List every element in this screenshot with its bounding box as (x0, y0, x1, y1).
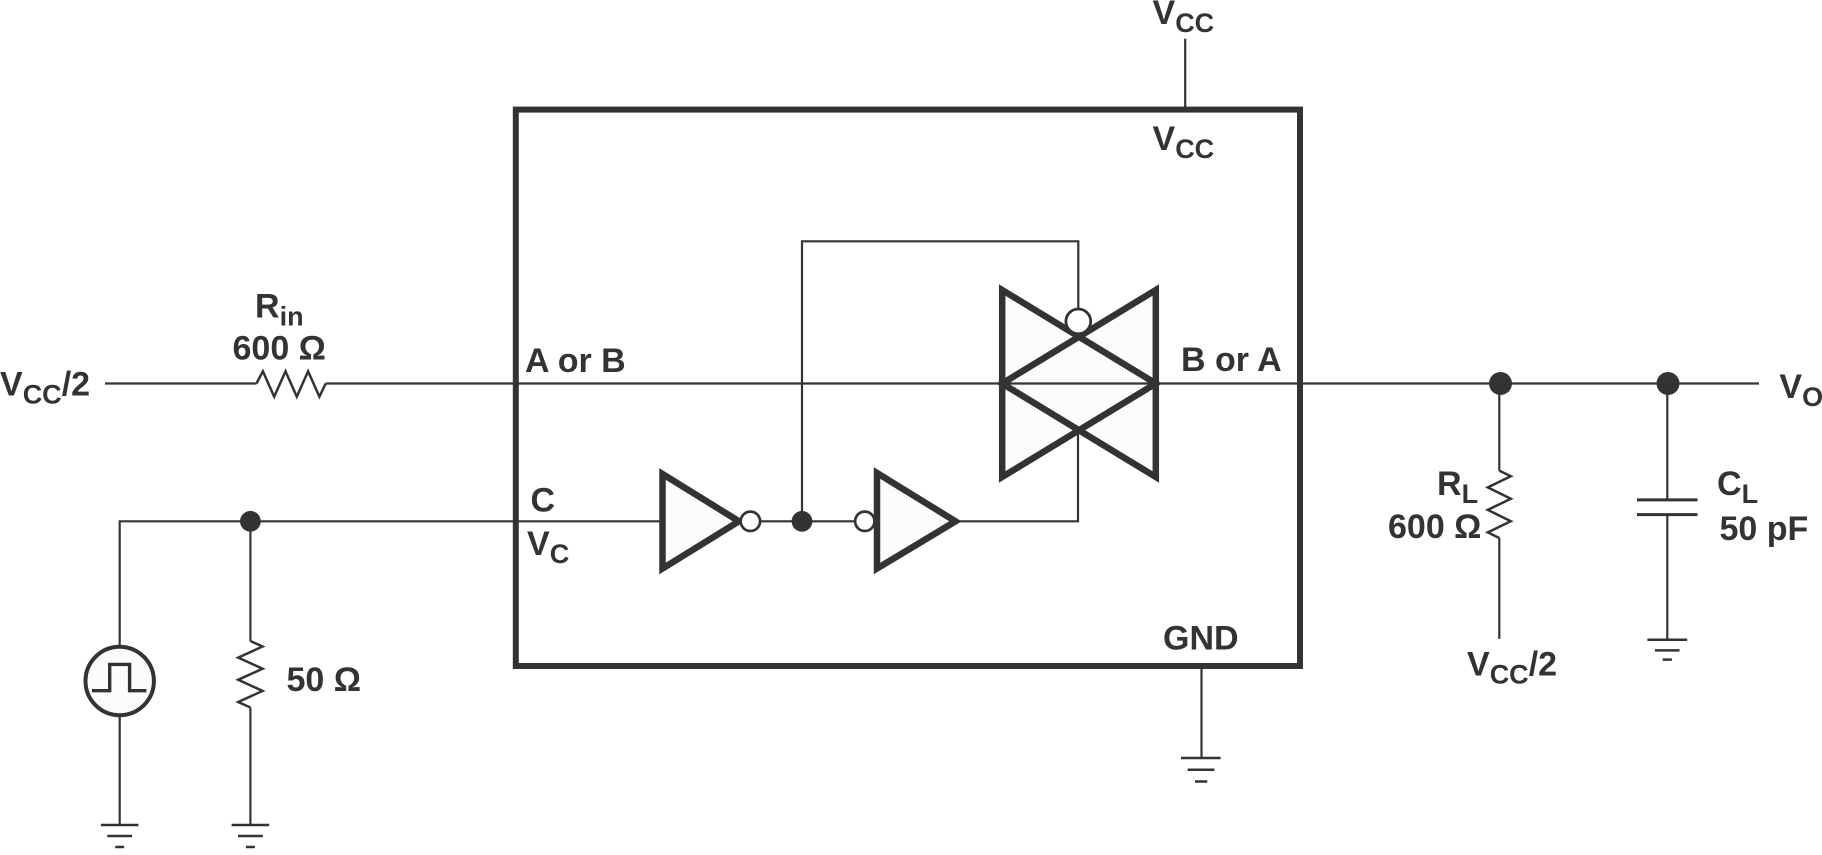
ground (pulse source) (101, 825, 139, 847)
svg-text:GND: GND (1163, 620, 1239, 658)
ground (CL) (1647, 640, 1687, 660)
junction: inverted control node (792, 511, 813, 532)
svg-text:RL: RL (1437, 465, 1478, 509)
svg-text:CL: CL (1717, 465, 1758, 509)
svg-text:A or B: A or B (525, 342, 626, 380)
wire: feedback loop up, across top, down to gate bubble (802, 241, 1078, 521)
resistor 50 ohm (238, 641, 262, 708)
bubble (inverter output) (741, 512, 760, 531)
svg-text:600 Ω: 600 Ω (1388, 508, 1481, 546)
svg-text:VC: VC (527, 525, 569, 569)
svg-text:VCC: VCC (1153, 120, 1215, 164)
wire: buffer output to gate bottom (954, 429, 1078, 522)
ground (IC) (1181, 758, 1221, 782)
bubble (gate control) (1066, 309, 1091, 334)
svg-text:Rin: Rin (255, 288, 304, 332)
svg-text:50 Ω: 50 Ω (287, 661, 362, 699)
wire: node to CL (1666, 384, 1668, 500)
IC box outline (516, 110, 1300, 666)
svg-text:VCC: VCC (1153, 0, 1215, 38)
wire: junction to 50 ohm resistor (249, 521, 251, 641)
svg-text:C: C (531, 482, 556, 520)
wire: inverter to buffer (761, 520, 855, 522)
wire: control C into inverter, down to pulse source (120, 521, 663, 646)
bubble (buffer input) (855, 512, 874, 531)
junction: control node (240, 511, 261, 532)
svg-text:VCC/2: VCC/2 (0, 366, 90, 410)
buffer U3 (877, 473, 956, 569)
transmission-gate U1 outline (1002, 290, 1156, 477)
junction: RL node (1489, 372, 1512, 395)
svg-text:50 pF: 50 pF (1720, 510, 1809, 548)
ground (50 ohm) (232, 825, 270, 847)
svg-text:VO: VO (1779, 368, 1822, 412)
wire: pulse source to ground (119, 715, 121, 825)
wire: node to RL (1498, 384, 1500, 471)
wire: box GND to ground (1200, 666, 1202, 758)
wire: Vcc/2 to resistor Rin (105, 382, 257, 384)
wire: Vcc supply to box top (1184, 39, 1186, 110)
inverter U2 (663, 474, 740, 569)
pulse generator source (86, 647, 154, 715)
wire: main signal A-to-output (326, 382, 1759, 384)
junction: CL node (1657, 372, 1680, 395)
svg-text:B or A: B or A (1181, 341, 1282, 379)
transmission-gate U1 triangle fills (1002, 290, 1156, 477)
svg-text:VCC/2: VCC/2 (1467, 646, 1557, 690)
wire: 50 ohm to ground (249, 708, 251, 826)
wire: CL to ground (1666, 515, 1668, 640)
capacitor CL (1637, 500, 1698, 515)
resistor RL (1488, 471, 1511, 538)
resistor Rin (257, 371, 326, 396)
svg-text:600 Ω: 600 Ω (233, 330, 326, 368)
wire: RL to Vcc/2 (1498, 538, 1500, 639)
